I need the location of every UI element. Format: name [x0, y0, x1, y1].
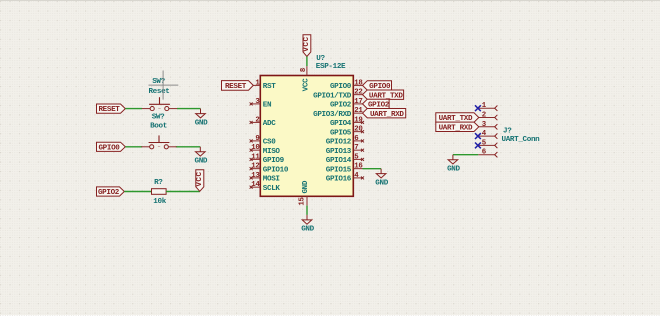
pin 8 VCC — [300, 66, 310, 91]
svg-text:7: 7 — [354, 144, 358, 152]
no-connect x pin 6 — [361, 139, 364, 142]
svg-text:17: 17 — [354, 98, 362, 106]
IC U? ESP-12E body — [260, 55, 353, 197]
wire — [177, 108, 201, 110]
global label UART_TXD — [436, 113, 479, 123]
svg-text:14: 14 — [251, 181, 260, 189]
pin 3 of J? — [478, 121, 497, 130]
svg-text:13: 13 — [251, 172, 260, 180]
svg-text:GPIO15: GPIO15 — [326, 166, 352, 174]
global label GPIO2 — [97, 187, 125, 197]
svg-text:GND: GND — [302, 180, 310, 193]
svg-text:GPIO9: GPIO9 — [263, 157, 285, 165]
svg-text:GND: GND — [301, 226, 314, 234]
pin 6 GPIO12 — [326, 135, 363, 147]
pin 18 GPIO0 — [330, 79, 363, 91]
svg-text:2: 2 — [482, 112, 486, 120]
svg-text:GND: GND — [375, 179, 388, 187]
svg-text:15: 15 — [299, 197, 307, 206]
pin 10 MISO — [251, 144, 280, 156]
svg-text:ADC: ADC — [263, 120, 276, 128]
pin 2 of J? — [478, 112, 497, 121]
no-connect x pin 20 — [361, 130, 364, 133]
svg-text:GPIO10: GPIO10 — [263, 166, 289, 174]
svg-text:GPIO5: GPIO5 — [330, 129, 352, 137]
svg-text:10k: 10k — [153, 198, 166, 206]
global label GPIO2 — [363, 99, 390, 109]
svg-text:RESET: RESET — [98, 106, 120, 114]
no-connect x pin 4 — [361, 176, 364, 179]
wire — [306, 206, 308, 215]
wire — [166, 191, 200, 193]
svg-text:GPIO14: GPIO14 — [326, 157, 352, 165]
no-connect x pin 10 — [250, 149, 253, 152]
svg-text:MOSI: MOSI — [263, 176, 280, 184]
global label RESET — [97, 104, 126, 114]
svg-text:VCC: VCC — [303, 36, 311, 51]
global label UART_RXD — [363, 108, 406, 118]
pin 6 of J? — [478, 149, 497, 158]
pin 16 GPIO15 — [326, 163, 364, 175]
power label VCC — [196, 170, 204, 192]
pin 17 GPIO2 — [330, 98, 363, 110]
pin 5 of J? — [478, 139, 497, 148]
no-connect flag J pin 4 — [475, 133, 481, 139]
wire — [453, 154, 478, 156]
svg-text:Boot: Boot — [150, 122, 167, 130]
pin 7 GPIO13 — [326, 144, 363, 156]
svg-text:GPIO0: GPIO0 — [98, 144, 120, 152]
svg-text:GPIO0: GPIO0 — [330, 83, 352, 91]
wire — [176, 146, 201, 148]
pin 9 CS0 — [251, 135, 276, 147]
power symbol GND — [301, 215, 314, 234]
pin 20 GPIO5 — [330, 126, 363, 138]
svg-text:16: 16 — [354, 163, 363, 171]
resistor R? 10k — [152, 179, 167, 206]
no-connect x pin 9 — [250, 139, 253, 142]
svg-text:GPIO12: GPIO12 — [326, 139, 352, 147]
no-connect flag J pin 5 — [475, 143, 481, 149]
svg-text:SW?: SW? — [152, 113, 165, 121]
switch SW? Boot — [141, 113, 176, 149]
no-connect x pin 7 — [361, 149, 364, 152]
wire — [125, 146, 142, 148]
svg-text:GND: GND — [447, 166, 460, 174]
svg-text:J?: J? — [503, 128, 512, 136]
svg-text:21: 21 — [354, 107, 363, 115]
svg-text:UART_RXD: UART_RXD — [439, 124, 473, 132]
global label RESET — [222, 81, 254, 91]
svg-text:R?: R? — [154, 179, 163, 187]
pin 3 EN — [251, 98, 272, 110]
global label GPIO0 — [363, 81, 392, 91]
pin 19 GPIO4 — [330, 116, 363, 128]
svg-text:VCC: VCC — [302, 78, 310, 91]
no-connect x pin 11 — [250, 158, 253, 161]
no-connect x pin 2 — [250, 121, 253, 124]
svg-text:9: 9 — [255, 135, 259, 143]
svg-text:GPIO2: GPIO2 — [98, 189, 120, 197]
pin 14 SCLK — [251, 181, 280, 193]
svg-text:EN: EN — [263, 102, 272, 110]
power symbol GND — [194, 147, 207, 166]
svg-text:11: 11 — [251, 153, 260, 161]
pin 5 GPIO14 — [326, 153, 363, 165]
global label GPIO0 — [97, 142, 126, 152]
svg-text:VCC: VCC — [196, 171, 204, 186]
pin 12 GPIO10 — [251, 163, 289, 175]
switch SW? Reset — [142, 78, 177, 111]
pin 1 of J? — [478, 102, 497, 111]
svg-text:UART_Conn: UART_Conn — [502, 136, 541, 144]
svg-text:GND: GND — [194, 158, 207, 166]
wire — [125, 108, 142, 110]
pin 21 GPIO3/RXD — [313, 107, 363, 119]
global label UART_TXD — [363, 90, 404, 100]
svg-text:22: 22 — [354, 89, 362, 97]
svg-text:Reset: Reset — [148, 88, 169, 96]
no-connect x pin 3 — [250, 102, 253, 105]
wire — [306, 57, 308, 67]
svg-text:GPIO2: GPIO2 — [330, 102, 352, 110]
wire — [363, 168, 382, 170]
pin 15 GND — [299, 180, 310, 206]
svg-text:GPIO4: GPIO4 — [330, 120, 352, 128]
global label UART_RXD — [436, 122, 479, 132]
svg-text:U?: U? — [316, 55, 325, 63]
svg-text:MISO: MISO — [263, 148, 281, 156]
pin 22 GPIO1/TXD — [313, 89, 362, 101]
no-connect x pin 19 — [361, 121, 364, 124]
power symbol GND — [195, 109, 208, 128]
no-connect x pin 13 — [250, 176, 253, 179]
svg-text:GPIO3/RXD: GPIO3/RXD — [313, 111, 352, 119]
power symbol GND — [447, 155, 460, 174]
svg-text:SCLK: SCLK — [263, 185, 281, 193]
no-connect flag J pin 1 — [475, 105, 481, 111]
svg-text:GPIO16: GPIO16 — [326, 176, 352, 184]
svg-text:UART_RXD: UART_RXD — [370, 111, 404, 119]
no-connect x pin 12 — [250, 167, 253, 170]
no-connect x pin 5 — [361, 158, 364, 161]
pin 13 MOSI — [251, 172, 280, 184]
power symbol GND — [375, 169, 388, 188]
pin 4 of J? — [478, 130, 497, 139]
svg-text:ESP-12E: ESP-12E — [316, 63, 346, 71]
connector J? UART_Conn — [502, 128, 541, 144]
power label VCC — [303, 35, 311, 57]
svg-text:GND: GND — [195, 119, 208, 127]
cursor crosshair — [149, 71, 179, 100]
pin 4 GPIO16 — [326, 172, 363, 184]
svg-text:RST: RST — [263, 83, 276, 91]
wire — [124, 191, 151, 193]
svg-text:RESET: RESET — [225, 83, 247, 91]
pin 1 RST — [251, 79, 276, 91]
svg-text:GPIO13: GPIO13 — [326, 148, 352, 156]
svg-text:2: 2 — [255, 116, 259, 124]
svg-text:18: 18 — [354, 79, 363, 87]
svg-text:10: 10 — [251, 144, 260, 152]
pin 2 ADC — [251, 116, 276, 128]
svg-text:CS0: CS0 — [263, 139, 276, 147]
svg-text:GPIO1/TXD: GPIO1/TXD — [313, 92, 352, 100]
no-connect x pin 14 — [250, 186, 253, 189]
pin 11 GPIO9 — [251, 153, 285, 165]
